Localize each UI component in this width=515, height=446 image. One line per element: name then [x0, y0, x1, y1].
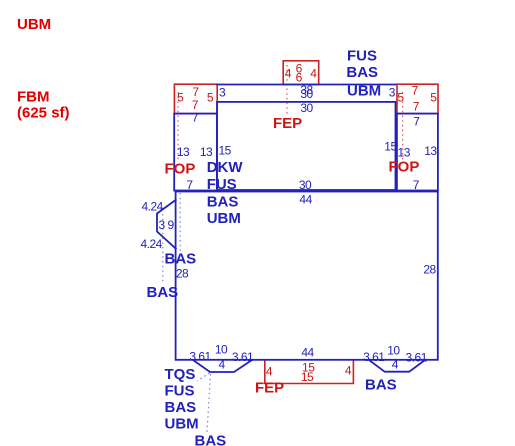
svg-text:9: 9: [168, 218, 175, 232]
svg-text:BAS: BAS: [195, 432, 227, 446]
svg-text:3: 3: [219, 86, 226, 100]
svg-text:FEP: FEP: [255, 379, 284, 396]
svg-text:5: 5: [177, 91, 184, 105]
porch FOP left blue outline: [174, 114, 217, 191]
upper storey outline: [217, 102, 396, 190]
dotted red leader right FOP: [402, 92, 404, 160]
porch FEP bottom red outline: [265, 361, 354, 384]
svg-text:5: 5: [207, 91, 214, 105]
svg-text:6: 6: [296, 71, 303, 85]
porch FEP top red outline: [283, 61, 319, 85]
svg-text:10: 10: [387, 343, 400, 357]
svg-text:15: 15: [301, 370, 314, 384]
svg-text:28: 28: [423, 263, 436, 277]
svg-text:5: 5: [397, 91, 404, 105]
svg-text:4.24: 4.24: [142, 199, 164, 213]
svg-text:FEP: FEP: [273, 115, 302, 132]
dotted blue leader bottom BAS: [207, 374, 211, 432]
svg-text:(625 sf): (625 sf): [17, 105, 70, 122]
porch FOP right red outline: [397, 84, 438, 113]
svg-text:44: 44: [299, 192, 312, 206]
svg-text:4: 4: [285, 67, 292, 81]
svg-text:FUS: FUS: [347, 47, 377, 64]
svg-text:10: 10: [215, 342, 228, 356]
svg-text:3.61: 3.61: [406, 351, 428, 365]
svg-text:4: 4: [345, 363, 352, 377]
svg-text:15: 15: [219, 143, 232, 157]
svg-text:7: 7: [412, 84, 419, 98]
svg-text:30: 30: [299, 178, 312, 192]
svg-text:44: 44: [301, 345, 314, 359]
svg-text:BAS: BAS: [147, 284, 179, 301]
dotted red leader left FOP: [177, 92, 179, 160]
svg-text:FUS: FUS: [165, 383, 195, 400]
svg-text:3: 3: [159, 218, 166, 232]
UBM outline top line: [216, 84, 396, 86]
svg-text:TQS: TQS: [165, 366, 196, 383]
svg-text:BAS: BAS: [207, 194, 239, 211]
bay window left wall: [157, 199, 177, 249]
svg-text:BAS: BAS: [365, 376, 397, 393]
svg-text:4: 4: [310, 67, 317, 81]
svg-text:UBM: UBM: [347, 82, 381, 99]
svg-text:3.61: 3.61: [232, 350, 254, 364]
svg-text:4: 4: [266, 364, 273, 378]
svg-text:3: 3: [389, 86, 396, 100]
svg-text:5: 5: [430, 91, 437, 105]
svg-text:13: 13: [177, 145, 190, 159]
svg-text:15: 15: [384, 139, 397, 153]
svg-text:BAS: BAS: [165, 399, 197, 416]
bay bottom left trapezoid: [193, 360, 252, 372]
svg-text:4: 4: [219, 358, 226, 372]
svg-text:FBM: FBM: [17, 89, 50, 106]
svg-text:4.24: 4.24: [141, 237, 163, 251]
svg-text:7: 7: [413, 178, 420, 192]
dotted blue leader left BAS: [162, 214, 164, 283]
svg-text:3.61: 3.61: [363, 350, 385, 364]
svg-text:UBM: UBM: [207, 210, 241, 227]
svg-text:UBM: UBM: [165, 416, 199, 433]
svg-text:7: 7: [192, 111, 199, 125]
svg-text:28: 28: [176, 267, 189, 281]
svg-text:BAS: BAS: [346, 64, 378, 81]
svg-text:7: 7: [413, 100, 420, 114]
dotted red leader top FEP: [286, 65, 288, 115]
svg-text:FOP: FOP: [389, 159, 420, 176]
porch FOP left red outline: [174, 84, 217, 113]
svg-text:7: 7: [186, 178, 193, 192]
svg-text:13: 13: [398, 145, 411, 159]
svg-text:30: 30: [300, 101, 313, 115]
svg-text:30: 30: [300, 87, 313, 101]
svg-text:BAS: BAS: [165, 251, 197, 268]
bay bottom right trapezoid: [369, 360, 425, 372]
svg-text:13: 13: [200, 145, 213, 159]
dotted blue leader TQS: [197, 373, 210, 381]
porch FOP right blue outline: [397, 114, 438, 191]
svg-text:7: 7: [413, 115, 420, 129]
lower storey outline: [176, 192, 438, 360]
svg-text:DKW: DKW: [207, 159, 244, 176]
svg-text:4: 4: [392, 358, 399, 372]
svg-text:13: 13: [424, 144, 437, 158]
svg-text:FOP: FOP: [165, 160, 196, 177]
svg-text:FUS: FUS: [207, 176, 237, 193]
dotted blue leader bay BAS: [179, 193, 181, 251]
svg-text:UBM: UBM: [17, 16, 51, 33]
svg-text:3.61: 3.61: [189, 350, 211, 364]
